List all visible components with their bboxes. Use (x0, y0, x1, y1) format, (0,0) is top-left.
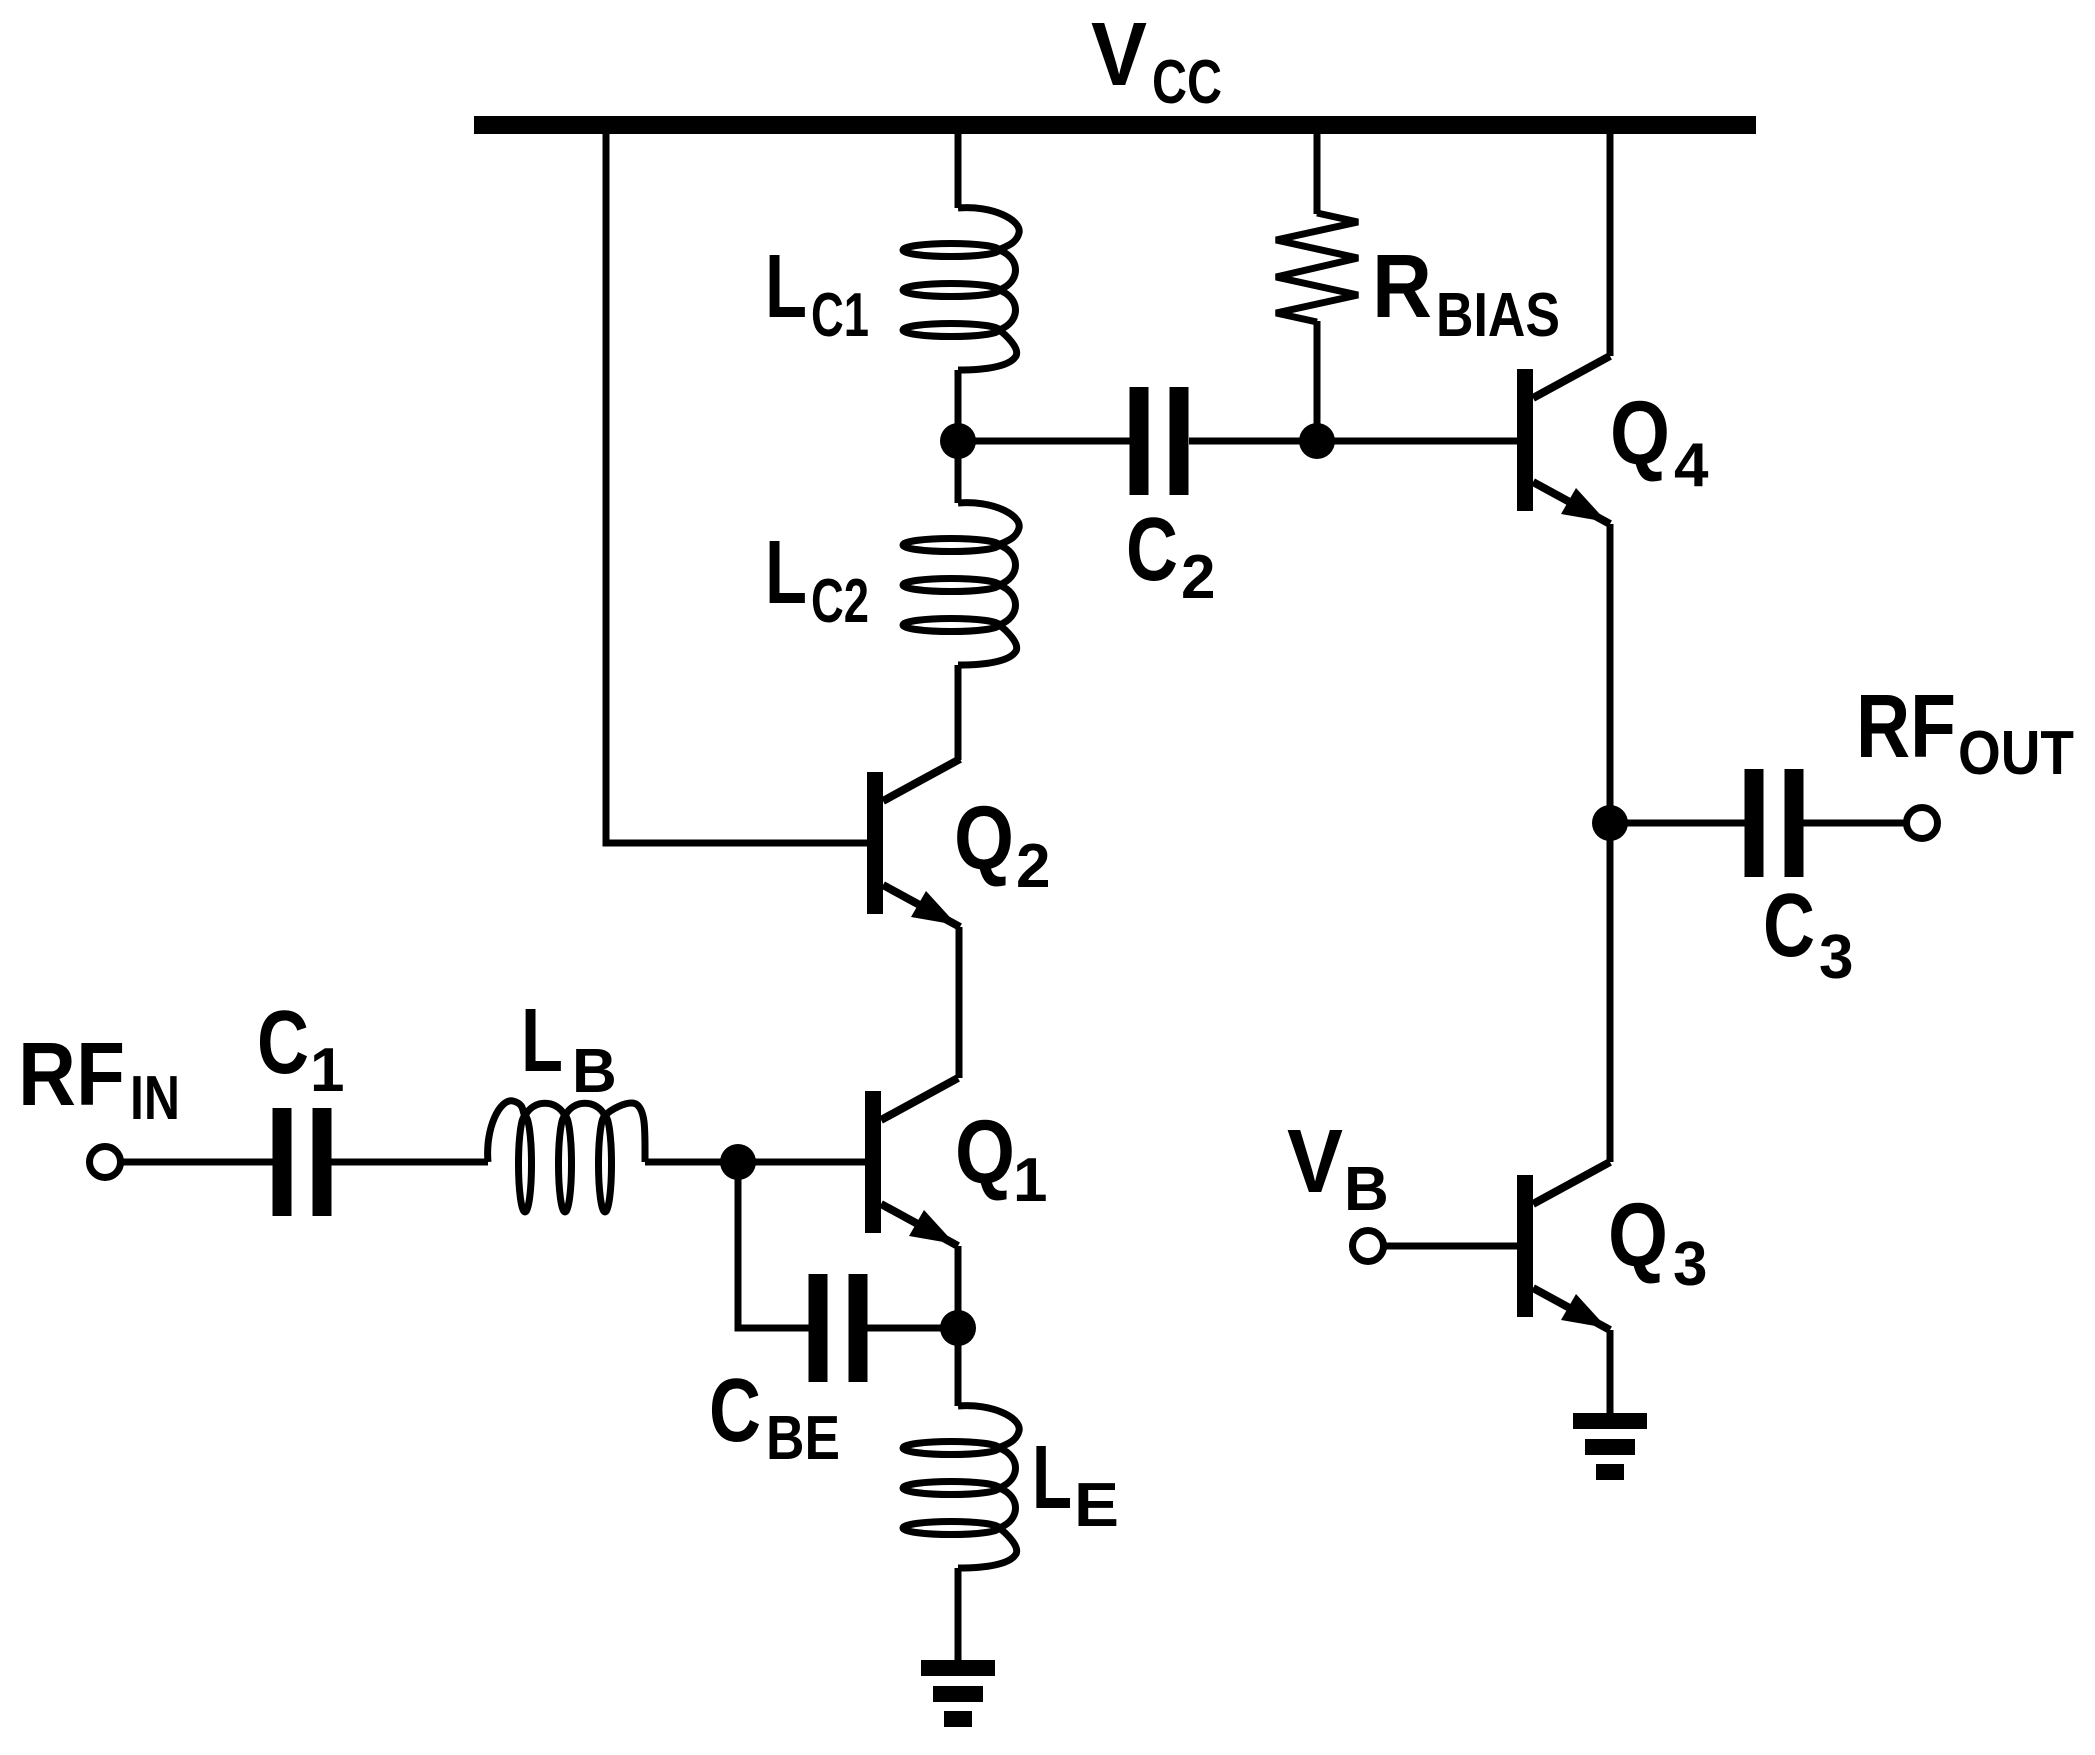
svg-text:IN: IN (130, 1064, 180, 1133)
svg-text:C: C (1126, 500, 1178, 600)
wire: CBE to node B (866, 1325, 958, 1332)
svg-text:C2: C2 (811, 567, 869, 636)
label LC1 (765, 237, 869, 350)
svg-text:L: L (765, 523, 807, 623)
node C (Q1 base / CBE junction) (720, 1144, 756, 1180)
wire: C2 to node D (1189, 438, 1317, 445)
wire: node A to LC2 (955, 441, 962, 503)
wire: LE to ground (955, 1568, 962, 1662)
wire: LC1 to node A (955, 370, 962, 441)
svg-text:2: 2 (1016, 832, 1050, 901)
label CBE (709, 1361, 840, 1473)
wire: rail to Q4 collector (1607, 134, 1614, 356)
inductor LE (903, 1406, 1019, 1568)
inductor LB (488, 1101, 645, 1212)
svg-text:3: 3 (1819, 923, 1853, 992)
label RF_OUT (1856, 677, 2074, 788)
wire: C1 to LB (331, 1159, 488, 1166)
wire: node E to C3 (1610, 820, 1746, 827)
transistor Q3 (1517, 1162, 1610, 1330)
label Q3 (1608, 1186, 1707, 1299)
node A (LC1/LC2/C2 junction) (940, 423, 976, 459)
VCC power rail (474, 116, 1756, 134)
svg-text:4: 4 (1674, 431, 1709, 500)
node D (C2 / RBIAS / Q4 base junction) (1299, 423, 1335, 459)
wire: node A to C2 (958, 438, 1132, 445)
inductor LC1 (903, 208, 1019, 370)
transistor Q4 (1517, 356, 1610, 524)
ground (Q3) (1573, 1413, 1647, 1480)
inductor LC2 (903, 503, 1019, 665)
label C2 (1126, 500, 1215, 612)
label LC2 (765, 523, 869, 636)
capacitor CBE (809, 1274, 868, 1382)
wire: rail to LC1 (955, 134, 962, 208)
wire: Q2 emitter to Q1 collector (956, 927, 963, 1078)
svg-text:C1: C1 (811, 281, 869, 350)
svg-text:C: C (709, 1361, 761, 1461)
ground (LE) (921, 1660, 995, 1727)
label Q1 (955, 1103, 1047, 1215)
svg-text:BE: BE (766, 1404, 840, 1473)
node E (Q4 emitter / C3 / Q3 collector junction) (1592, 805, 1628, 841)
svg-text:Q: Q (954, 789, 1014, 889)
resistor RBIAS (1276, 213, 1358, 322)
svg-text:1: 1 (1013, 1146, 1047, 1215)
wire: node E to Q3 collector (1607, 823, 1614, 1162)
svg-text:1: 1 (310, 1036, 344, 1105)
svg-text:L: L (521, 991, 563, 1091)
wire: Q1 emitter to node B (955, 1246, 962, 1328)
svg-text:Q: Q (1610, 384, 1670, 484)
node B (Q1 emitter / CBE / LE junction) (940, 1310, 976, 1346)
svg-text:2: 2 (1181, 543, 1215, 612)
wire: node C to Q1 base (738, 1159, 866, 1166)
label LE (1032, 1428, 1119, 1540)
svg-text:C: C (1763, 876, 1815, 976)
svg-text:RF: RF (1856, 677, 1956, 777)
label LB (521, 991, 617, 1106)
wire: VB to Q3 base (1383, 1243, 1517, 1250)
svg-text:CC: CC (1152, 48, 1222, 117)
label RBIAS (1372, 237, 1560, 350)
wire: node B to LE (955, 1328, 962, 1406)
svg-text:B: B (1344, 1155, 1389, 1224)
label Q4 (1610, 384, 1709, 500)
svg-text:C: C (257, 993, 309, 1093)
label RF_IN (18, 1025, 180, 1133)
wire: RF_IN to C1 (120, 1159, 273, 1166)
terminal RF_IN (90, 1147, 121, 1178)
transistor Q1 (865, 1078, 958, 1246)
svg-text:V: V (1287, 1112, 1343, 1212)
svg-text:L: L (1032, 1428, 1072, 1528)
wire: node C down to CBE (738, 1162, 810, 1328)
wire: Q3 emitter to ground (1607, 1330, 1614, 1415)
transistor Q2 (867, 759, 960, 927)
terminal RF_OUT (1907, 808, 1938, 839)
net label VCC (1091, 5, 1222, 117)
label C1 (257, 993, 344, 1105)
wire: node D to Q4 base (1317, 438, 1517, 445)
wire: RBIAS to node D (1314, 321, 1321, 441)
svg-text:Q: Q (955, 1103, 1015, 1203)
label Q2 (954, 789, 1050, 901)
svg-text:BIAS: BIAS (1436, 281, 1560, 350)
terminal VB (1353, 1231, 1384, 1262)
svg-text:L: L (765, 237, 807, 337)
svg-text:E: E (1074, 1471, 1119, 1540)
svg-text:RF: RF (18, 1025, 125, 1125)
svg-text:R: R (1372, 237, 1432, 337)
wire: LB to node C (645, 1159, 738, 1166)
label VB (1287, 1112, 1389, 1224)
wire: rail to RBIAS (1314, 134, 1321, 214)
svg-text:B: B (572, 1037, 617, 1106)
label C3 (1763, 876, 1853, 992)
capacitor C2 (1130, 387, 1189, 495)
capacitor C1 (273, 1108, 332, 1216)
wire: Q4 emitter to node E (1607, 524, 1614, 823)
svg-text:3: 3 (1673, 1230, 1707, 1299)
svg-text:V: V (1091, 5, 1147, 105)
wire: C3 to RF_OUT (1803, 820, 1907, 827)
wire: LC2 to Q2 collector (955, 665, 962, 760)
svg-text:OUT: OUT (1958, 719, 2074, 788)
wire: rail to Q2 base (left branch) (606, 134, 867, 843)
svg-text:Q: Q (1608, 1186, 1668, 1286)
capacitor C3 (1745, 769, 1804, 877)
